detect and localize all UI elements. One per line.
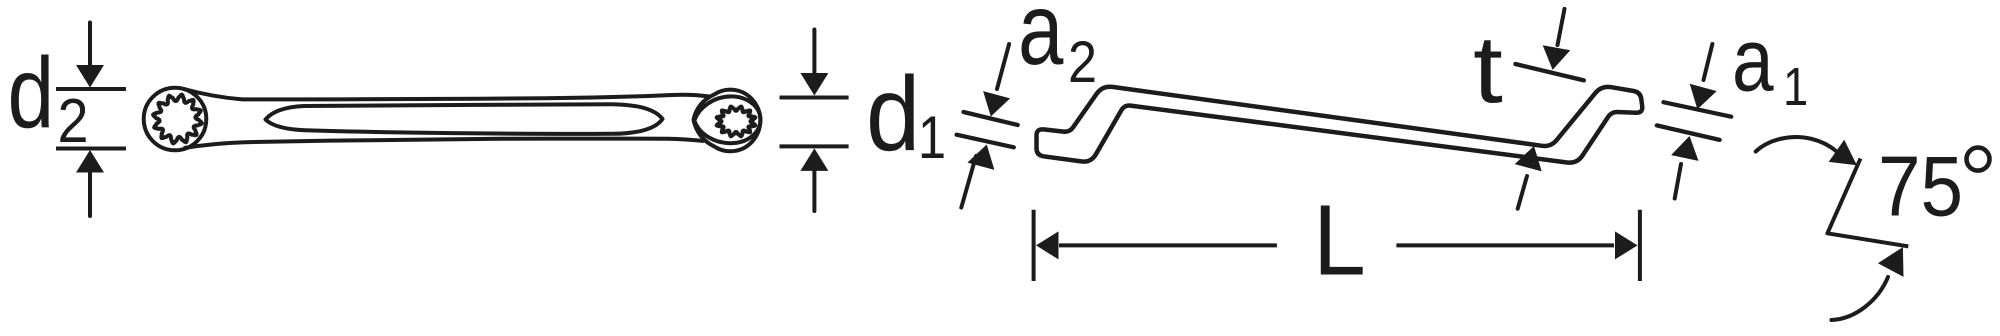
dimension d1 lower line [780,144,849,148]
svg-text:a: a [1018,0,1064,86]
75-degree lower curved arrow [1831,277,1888,320]
75-degree angle zigzag [1827,159,1908,247]
svg-text:t: t [1473,16,1503,123]
shank slot [266,104,663,134]
svg-text:2: 2 [1068,29,1097,94]
dimension d1 upper line [780,96,849,100]
dimension a2 upper arrow [997,44,1009,89]
dimension t lower arrow [1518,176,1527,209]
dimension t tick [1515,64,1584,80]
svg-text:1: 1 [918,104,946,171]
dimension d2 lower arrow [88,172,92,216]
dimension L left arrow [1036,231,1059,259]
dimension d2 lower line [56,147,126,151]
dimension a1 lower tick [1657,125,1720,139]
left head 12-point opening [153,95,202,144]
dimension a2 lower tick [957,135,1014,148]
dimension L left terminator [1032,210,1036,281]
svg-text:d: d [866,54,920,173]
right head boss outline [694,96,760,143]
dimension a2 lower arrow [961,156,976,208]
svg-text:a: a [1732,12,1774,111]
right head 12-point opening [717,107,756,137]
dimension d1 lower arrow [812,170,816,211]
svg-text:2: 2 [58,87,89,155]
svg-text:75: 75 [1878,140,1963,235]
dimension d2 upper line [56,87,126,91]
dimension a1 upper tick [1664,102,1732,117]
degree symbol [1967,148,1990,171]
shank top edge [184,89,709,99]
dimension t upper arrow [1558,9,1565,45]
dimension d2 upper arrow [88,23,92,67]
right ring head outer teardrop [694,90,761,152]
left ring head outer circle [144,88,207,151]
svg-text:L: L [1313,184,1366,296]
dimension L right terminator [1638,210,1642,281]
dimension d1 upper arrow [812,30,816,75]
shank bottom edge [185,139,703,148]
dimension a1 upper arrow [1704,44,1713,80]
dimension a2 upper tick [964,112,1018,125]
svg-text:d: d [8,36,55,149]
75-degree upper curved arrow [1756,137,1836,151]
svg-text:1: 1 [1783,56,1808,117]
dimension L right arrow [1396,243,1614,247]
dimension a1 lower arrow [1675,164,1681,199]
wrench side view outline [1037,87,1643,163]
